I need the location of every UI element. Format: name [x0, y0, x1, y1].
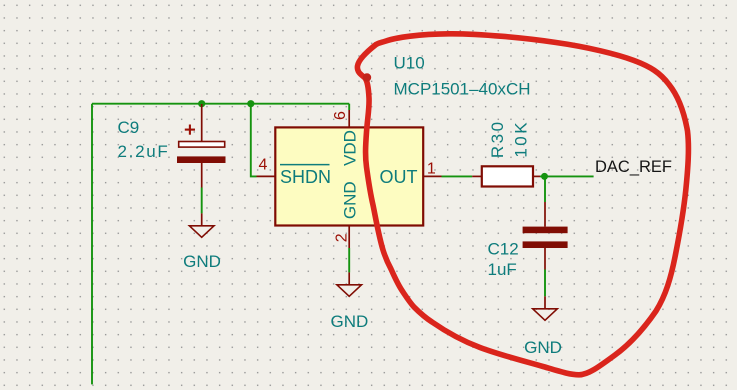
wire VDD drop to pin 6	[348, 104, 350, 110]
ground symbol C9	[183, 213, 221, 270]
red annotation knot	[363, 73, 371, 81]
svg-text:2.2uF: 2.2uF	[118, 142, 170, 161]
svg-text:GND: GND	[331, 312, 369, 331]
svg-text:MCP1501–40xCH: MCP1501–40xCH	[394, 80, 531, 99]
U10 pin 1 OUT	[380, 160, 442, 187]
ground symbol pin 2	[331, 272, 369, 331]
svg-text:1: 1	[427, 160, 436, 177]
svg-text:GND: GND	[340, 181, 359, 219]
wire C12 to ground	[544, 270, 546, 297]
svg-text:6: 6	[332, 111, 349, 120]
resistor R30	[472, 166, 540, 186]
junction node SHDN branch	[247, 100, 254, 107]
svg-text:VDD: VDD	[340, 130, 359, 166]
svg-text:SHDN: SHDN	[280, 167, 331, 187]
ground symbol C12	[524, 296, 562, 357]
capacitor C9	[177, 104, 226, 188]
R30 value labels	[488, 119, 530, 158]
wire SHDN branch	[251, 104, 257, 177]
C12 value labels	[488, 240, 519, 279]
svg-text:1uF: 1uF	[488, 260, 517, 279]
svg-text:GND: GND	[524, 338, 562, 357]
junction node C9/top	[198, 100, 205, 107]
svg-text:2: 2	[333, 233, 350, 242]
svg-text:C12: C12	[488, 240, 519, 259]
wire R30 to DAC_REF	[540, 175, 594, 177]
wire C9 to ground	[201, 188, 203, 214]
capacitor C12	[523, 202, 568, 270]
svg-text:10K: 10K	[511, 120, 530, 158]
svg-text:4: 4	[259, 157, 268, 174]
U10 pin 2 GND	[333, 181, 359, 248]
U10 reference labels	[394, 54, 531, 99]
wire pin2 to ground	[348, 248, 350, 272]
svg-text:R30: R30	[488, 119, 507, 158]
wire junction to C12	[544, 176, 546, 202]
IC U10 MCP1501-40xCH body	[275, 127, 423, 225]
svg-text:DAC_REF: DAC_REF	[595, 158, 672, 176]
svg-text:C9: C9	[118, 118, 140, 137]
svg-text:GND: GND	[183, 252, 221, 271]
svg-text:U10: U10	[394, 54, 425, 73]
wire top horizontal	[92, 103, 349, 105]
red annotation loop	[357, 34, 688, 375]
U10 pin 6 VDD	[332, 110, 359, 166]
junction node DAC_REF	[541, 173, 548, 180]
svg-text:OUT: OUT	[380, 167, 418, 187]
wire OUT to R30	[442, 175, 473, 177]
U10 pin 4 SHDN	[257, 157, 332, 187]
C9 value labels	[118, 118, 170, 161]
wire left vertical	[91, 104, 93, 385]
